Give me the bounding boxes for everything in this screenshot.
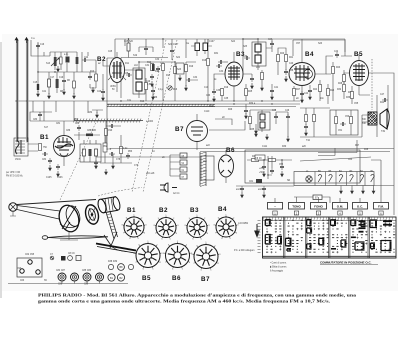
svg-text:R20: R20 bbox=[280, 53, 285, 55]
pointer rail lens bbox=[42, 236, 108, 240]
svg-text:R10: R10 bbox=[90, 71, 95, 73]
tube B1 UCC85 bbox=[54, 128, 75, 166]
wire bbox=[315, 56, 352, 74]
filament B5 bbox=[329, 174, 333, 182]
svg-text:C88: C88 bbox=[75, 123, 80, 125]
coil S20 bbox=[127, 43, 130, 51]
svg-text:C34: C34 bbox=[219, 71, 224, 73]
IF coil L15 bbox=[255, 55, 261, 63]
connector box a16 bbox=[201, 156, 214, 180]
svg-text:C36: C36 bbox=[153, 97, 158, 99]
tuning drum bbox=[56, 203, 82, 234]
svg-text:R29: R29 bbox=[228, 109, 233, 111]
svg-text:F.M.: F.M. bbox=[378, 204, 384, 208]
svg-text:C47: C47 bbox=[380, 94, 385, 96]
svg-text:R50: R50 bbox=[74, 119, 79, 121]
resistor R46 bbox=[269, 159, 276, 162]
rail y72 bbox=[38, 71, 96, 73]
wire vert bbox=[242, 39, 244, 74]
capacitor C109 bbox=[170, 48, 174, 54]
wire bbox=[224, 61, 228, 63]
coil can S21 bbox=[195, 43, 200, 51]
svg-text:R44: R44 bbox=[380, 102, 385, 104]
trimmer pot2 bbox=[76, 256, 81, 261]
svg-text:S19: S19 bbox=[133, 55, 138, 57]
capacitor C41 bbox=[270, 88, 274, 94]
capacitor C18 bbox=[62, 78, 66, 84]
capacitor C77 bbox=[126, 153, 130, 159]
FM unit terminal strip bbox=[180, 153, 187, 179]
wire bbox=[174, 62, 176, 101]
svg-text:a.m.: a.m. bbox=[64, 54, 69, 56]
resistor R16 bbox=[174, 67, 177, 74]
resistor R1 dark bbox=[37, 84, 39, 90]
svg-text:C79: C79 bbox=[134, 165, 139, 167]
FM dipole symbol bbox=[16, 140, 22, 154]
svg-text:R27: R27 bbox=[296, 89, 301, 91]
svg-text:C44: C44 bbox=[304, 93, 309, 95]
coil L2 bbox=[39, 144, 42, 151]
section box corners right bbox=[318, 140, 357, 156]
wire bbox=[344, 92, 370, 100]
wire bbox=[28, 144, 38, 151]
extra density: top mid labels bbox=[125, 39, 345, 60]
ground bbox=[57, 66, 60, 72]
drum mount post bbox=[60, 232, 78, 240]
svg-text:R19: R19 bbox=[224, 87, 229, 89]
svg-text:C61: C61 bbox=[249, 181, 254, 183]
capacitor C88 bbox=[77, 125, 81, 131]
switch box FM bbox=[374, 203, 389, 210]
coil inner 2 bbox=[89, 149, 92, 156]
svg-text:R18: R18 bbox=[202, 60, 207, 62]
big down arrow left of table bbox=[255, 224, 259, 237]
wire bbox=[49, 72, 74, 94]
switch tick 2 bbox=[294, 211, 298, 215]
capacitor C48 bbox=[304, 124, 308, 130]
svg-text:C84 C87: C84 C87 bbox=[56, 270, 66, 272]
trimmer pot bbox=[68, 256, 73, 261]
svg-text:0,5M: 0,5M bbox=[147, 84, 152, 86]
tube B4 UL84 bbox=[289, 56, 315, 101]
resistor R11 bbox=[145, 83, 148, 90]
ground bbox=[57, 171, 60, 177]
vertical drops from rail bbox=[125, 39, 345, 58]
resistor R2 bbox=[76, 57, 79, 64]
ground bbox=[105, 169, 108, 175]
junction dots power bbox=[263, 159, 264, 160]
capacitor C53 bbox=[280, 164, 284, 170]
resistor R24 bbox=[319, 85, 322, 92]
capacitor C30b bbox=[156, 66, 160, 72]
wire bbox=[128, 39, 130, 58]
svg-text:S13: S13 bbox=[46, 63, 51, 65]
ground bbox=[251, 83, 254, 89]
svg-text:C50: C50 bbox=[345, 116, 350, 118]
wire bbox=[90, 60, 96, 88]
ground bbox=[37, 91, 40, 97]
dial cord top bbox=[17, 200, 96, 205]
capacitor C37 bbox=[244, 56, 250, 60]
wire bbox=[362, 115, 377, 137]
ground bbox=[185, 85, 188, 91]
svg-text:S24: S24 bbox=[231, 41, 236, 43]
extra density: left mid labels bbox=[30, 112, 165, 167]
ground bbox=[151, 81, 154, 87]
resistor R18a bbox=[185, 65, 188, 72]
svg-text:C21: C21 bbox=[42, 91, 47, 93]
socket B1 bbox=[122, 215, 148, 240]
svg-text:D38 D39: D38 D39 bbox=[108, 261, 118, 263]
dashed gang line 2 bbox=[143, 40, 177, 192]
wire bbox=[268, 156, 272, 179]
coil S14 bbox=[60, 57, 63, 64]
wire bus y56 bbox=[38, 52, 50, 56]
capacitor C104 bbox=[48, 158, 52, 164]
terminal block bbox=[61, 256, 66, 261]
filament chain box bbox=[294, 172, 374, 186]
svg-text:B1: B1 bbox=[40, 134, 49, 141]
socket B7 bbox=[192, 242, 222, 271]
output transformer T42 bbox=[368, 112, 377, 125]
svg-text:R52: R52 bbox=[103, 146, 108, 148]
resistor R21 bbox=[285, 55, 288, 62]
svg-text:C64: C64 bbox=[348, 159, 353, 161]
wire bbox=[96, 156, 200, 158]
capacitor C76 bbox=[109, 152, 115, 156]
IF box outline bbox=[121, 58, 168, 99]
capacitor C33 bbox=[212, 89, 216, 95]
svg-text:R19: R19 bbox=[189, 66, 194, 68]
can cap B8 bbox=[118, 264, 125, 271]
svg-text:C105: C105 bbox=[46, 177, 52, 179]
wire bbox=[82, 52, 96, 72]
coil L29 bbox=[260, 122, 265, 128]
ground bbox=[179, 75, 182, 81]
wire bbox=[243, 39, 272, 70]
wire bbox=[125, 62, 152, 98]
ground bbox=[255, 131, 258, 137]
ground bbox=[48, 93, 51, 99]
ground bbox=[73, 93, 76, 99]
chassis hatched band bbox=[107, 104, 215, 106]
ground bbox=[63, 89, 66, 95]
ground bbox=[281, 171, 284, 177]
mains plug bbox=[160, 183, 177, 192]
svg-text:C13: C13 bbox=[204, 87, 209, 89]
resistor R103 dark bbox=[86, 134, 93, 137]
svg-text:R28: R28 bbox=[338, 83, 343, 85]
svg-text:TONO: TONO bbox=[292, 204, 301, 208]
svg-text:‖ Ancoraggio: ‖ Ancoraggio bbox=[270, 270, 284, 273]
IF transformer T1 frame bbox=[133, 68, 145, 94]
svg-text:C89: C89 bbox=[84, 284, 89, 286]
capacitor C39 bbox=[250, 76, 254, 82]
ground bbox=[263, 171, 266, 177]
resistor R40 bbox=[305, 115, 308, 122]
svg-text:C28: C28 bbox=[124, 73, 129, 75]
box outline bbox=[330, 110, 358, 135]
ref circle 1 bbox=[128, 264, 133, 269]
resistor R45 bbox=[252, 159, 259, 162]
capacitor C38 bbox=[284, 69, 288, 75]
capacitor C49 bbox=[382, 98, 388, 102]
capacitor C44b bbox=[244, 108, 248, 114]
svg-text:C76: C76 bbox=[107, 149, 112, 151]
cord to pointer hatched bbox=[106, 211, 118, 239]
capacitor C43 bbox=[308, 88, 312, 94]
switch box OC bbox=[353, 203, 368, 210]
svg-text:C90: C90 bbox=[108, 130, 113, 132]
dashed gang line 1 bbox=[132, 40, 166, 192]
svg-text:C45: C45 bbox=[272, 110, 277, 112]
svg-text:C106: C106 bbox=[57, 177, 63, 179]
svg-text:SR: SR bbox=[287, 180, 291, 182]
capacitor C107 bbox=[109, 124, 115, 128]
dial cord bottom bbox=[17, 206, 60, 220]
svg-text:C27: C27 bbox=[268, 39, 273, 41]
svg-text:R30: R30 bbox=[282, 146, 287, 148]
svg-text:S26: S26 bbox=[318, 43, 323, 45]
wire bbox=[171, 39, 173, 60]
svg-text:C25: C25 bbox=[108, 51, 113, 53]
svg-text:a16 a18: a16 a18 bbox=[146, 173, 155, 175]
svg-text:R31: R31 bbox=[214, 53, 219, 55]
resistor R23 bbox=[332, 67, 335, 74]
tube B7 rectifier bbox=[187, 114, 208, 150]
capacitor C23 bbox=[88, 74, 92, 80]
resistor R51 bbox=[120, 147, 123, 154]
resistor R19 bbox=[221, 89, 224, 96]
svg-text:P.C. a 000 collegam: P.C. a 000 collegam bbox=[234, 250, 254, 252]
wire bbox=[191, 39, 212, 56]
wire bbox=[152, 62, 175, 101]
svg-text:B4: B4 bbox=[305, 51, 314, 58]
svg-text:R48: R48 bbox=[364, 149, 369, 151]
svg-text:C36: C36 bbox=[216, 90, 221, 92]
resistor R41 bbox=[313, 115, 316, 122]
capacitor C28 bbox=[126, 73, 132, 77]
svg-text:amC2: amC2 bbox=[258, 189, 265, 191]
junction bbox=[128, 38, 129, 39]
table row label column bbox=[258, 221, 261, 253]
IF coil L10 bbox=[136, 70, 142, 79]
can cap C86 bbox=[83, 273, 91, 281]
capacitor amC1 bbox=[240, 186, 244, 192]
trimmer arrow bbox=[51, 58, 59, 66]
wire bbox=[271, 84, 273, 88]
core box bbox=[66, 57, 70, 63]
ground bbox=[92, 87, 95, 93]
svg-text:C78: C78 bbox=[116, 159, 121, 161]
can cap C89 bbox=[117, 274, 124, 281]
resistor R43 bbox=[350, 117, 353, 124]
svg-text:FONO: FONO bbox=[314, 204, 323, 208]
switch table bbox=[263, 217, 397, 258]
capacitor C63 bbox=[270, 168, 274, 174]
resistor R37 bbox=[351, 92, 354, 99]
capacitor C14 bbox=[216, 64, 222, 68]
ground bbox=[213, 96, 216, 102]
svg-text:B2: B2 bbox=[97, 56, 106, 63]
switch box FONO bbox=[311, 203, 327, 210]
resistor R42 bbox=[335, 117, 338, 124]
ratio detector coils bbox=[258, 112, 270, 130]
capacitor C29 bbox=[150, 74, 154, 80]
wire bbox=[300, 110, 362, 137]
coil S15 bbox=[48, 79, 51, 87]
wire bbox=[249, 110, 251, 130]
extra labels B3 area bbox=[204, 38, 299, 104]
sloped wire bbox=[300, 157, 371, 161]
ground bbox=[112, 163, 115, 169]
wire bbox=[114, 39, 116, 58]
antenna hatched rod 1 bbox=[17, 40, 19, 142]
hatched coil band bbox=[200, 152, 206, 187]
svg-text:C35: C35 bbox=[224, 98, 229, 100]
svg-text:C19: C19 bbox=[59, 77, 64, 79]
coil inner 3 bbox=[95, 149, 98, 156]
IF coil L11 bbox=[136, 82, 142, 91]
socket B2 bbox=[154, 215, 180, 240]
IF transformer T2 frame bbox=[252, 42, 266, 66]
svg-text:R16: R16 bbox=[173, 89, 178, 91]
svg-text:C15: C15 bbox=[33, 82, 38, 84]
svg-text:C38: C38 bbox=[289, 70, 294, 72]
power section box bbox=[245, 150, 360, 183]
drive cord box rear bbox=[17, 258, 42, 277]
wire bbox=[250, 110, 288, 137]
svg-text:+25µ: +25µ bbox=[259, 168, 265, 170]
ground bbox=[102, 95, 105, 101]
wire bbox=[243, 70, 262, 85]
svg-text:R34 a: R34 a bbox=[249, 103, 256, 105]
svg-text:B3: B3 bbox=[190, 207, 199, 214]
wire bbox=[139, 47, 153, 55]
capacitor amC2 bbox=[262, 186, 266, 192]
resistor R26 bbox=[327, 89, 330, 96]
switch box ~ bbox=[268, 203, 283, 210]
svg-text:R35: R35 bbox=[250, 129, 255, 131]
svg-text:C46: C46 bbox=[285, 110, 290, 112]
wire bbox=[146, 78, 153, 101]
svg-text:R47: R47 bbox=[355, 145, 360, 147]
filament B6 bbox=[318, 174, 322, 182]
coil S16 bbox=[56, 79, 59, 88]
long rails mid bbox=[15, 101, 300, 107]
dashed indicator line bbox=[371, 59, 373, 110]
svg-text:C53: C53 bbox=[279, 164, 284, 166]
svg-text:C85 C86: C85 C86 bbox=[82, 270, 92, 272]
dashed cord to dial bbox=[98, 188, 142, 197]
wire grid B3 bbox=[214, 74, 225, 90]
capacitor C108 bbox=[94, 160, 98, 166]
tube B5 UABC80 bbox=[350, 54, 369, 95]
loudspeaker bbox=[380, 109, 389, 129]
svg-text:B5: B5 bbox=[354, 51, 363, 58]
AM bus wire bbox=[236, 185, 294, 187]
svg-text:C16: C16 bbox=[40, 44, 45, 46]
arrow junction bbox=[96, 112, 99, 118]
ground bbox=[266, 134, 269, 140]
B4 box outline bbox=[293, 40, 345, 56]
coil L28 bbox=[260, 114, 265, 120]
svg-text:R17: R17 bbox=[166, 75, 171, 77]
svg-text:R26: R26 bbox=[330, 90, 335, 92]
resistor R12 bbox=[152, 64, 155, 71]
long rails lower bbox=[110, 149, 394, 152]
wire AM aerial input bbox=[31, 40, 38, 92]
electrolytic C61 bbox=[256, 179, 262, 183]
wire bbox=[208, 39, 222, 101]
ground bbox=[285, 76, 288, 82]
svg-text:150Ω: 150Ω bbox=[15, 159, 21, 161]
filament B3 bbox=[350, 174, 354, 182]
switch box risers bbox=[275, 197, 381, 203]
switch box TONO bbox=[289, 203, 305, 210]
resistor R27 bbox=[293, 89, 296, 96]
can cap row: C84 bbox=[58, 273, 66, 281]
ground bbox=[271, 94, 274, 100]
svg-text:C55: C55 bbox=[354, 103, 359, 105]
ground bbox=[152, 94, 155, 100]
capacitor C105 bbox=[56, 164, 60, 170]
ground bbox=[287, 136, 290, 142]
can cap C85 bbox=[71, 273, 79, 281]
wire bbox=[84, 140, 96, 162]
idler pulley bbox=[84, 203, 101, 225]
junction bbox=[37, 71, 38, 72]
wire bbox=[92, 110, 103, 113]
trimmer C33 bbox=[186, 78, 192, 82]
coil inner 1 bbox=[83, 149, 86, 156]
wire bbox=[327, 84, 329, 104]
svg-text:mCO3/B2: mCO3/B2 bbox=[238, 223, 249, 225]
svg-text:C90: C90 bbox=[17, 268, 22, 270]
svg-text:B1: B1 bbox=[127, 207, 136, 214]
svg-text:C110: C110 bbox=[204, 111, 210, 113]
svg-text:C51: C51 bbox=[338, 130, 343, 132]
svg-text:R24: R24 bbox=[313, 89, 318, 91]
extra density: under-B3 row bbox=[204, 109, 307, 148]
extra dark marks OC FM columns bbox=[331, 220, 392, 249]
svg-text:C107: C107 bbox=[209, 41, 215, 43]
svg-text:• Corsi di comm.: • Corsi di comm. bbox=[270, 262, 287, 265]
can cap C87 bbox=[96, 273, 104, 281]
svg-text:per UHF / FM: per UHF / FM bbox=[6, 171, 20, 174]
ground arrow bbox=[245, 113, 248, 119]
coil L5 bbox=[103, 143, 107, 152]
ground bbox=[261, 85, 264, 91]
capacitor C46 bbox=[286, 114, 290, 120]
svg-text:B5: B5 bbox=[142, 275, 151, 282]
svg-text:C88/E86: C88/E86 bbox=[87, 130, 97, 132]
socket B4 bbox=[214, 215, 240, 240]
wire bbox=[245, 84, 247, 101]
coil can S22 bbox=[203, 43, 208, 51]
svg-text:gamma onde corta e una gamma o: gamma onde corta e una gamma onde ultrac… bbox=[38, 299, 330, 304]
grid wire B5 bbox=[344, 73, 350, 84]
fuse box F8 F9 bbox=[255, 155, 265, 160]
socket B6 bbox=[163, 241, 193, 270]
svg-text:C41: C41 bbox=[274, 87, 279, 89]
extra density: B4 bottom cluster bbox=[293, 70, 346, 103]
resistor R14 bbox=[151, 64, 154, 71]
switch tick 3 bbox=[316, 211, 320, 215]
ground bbox=[309, 94, 312, 100]
svg-text:C84: C84 bbox=[42, 159, 47, 161]
switch box OM bbox=[333, 203, 348, 210]
